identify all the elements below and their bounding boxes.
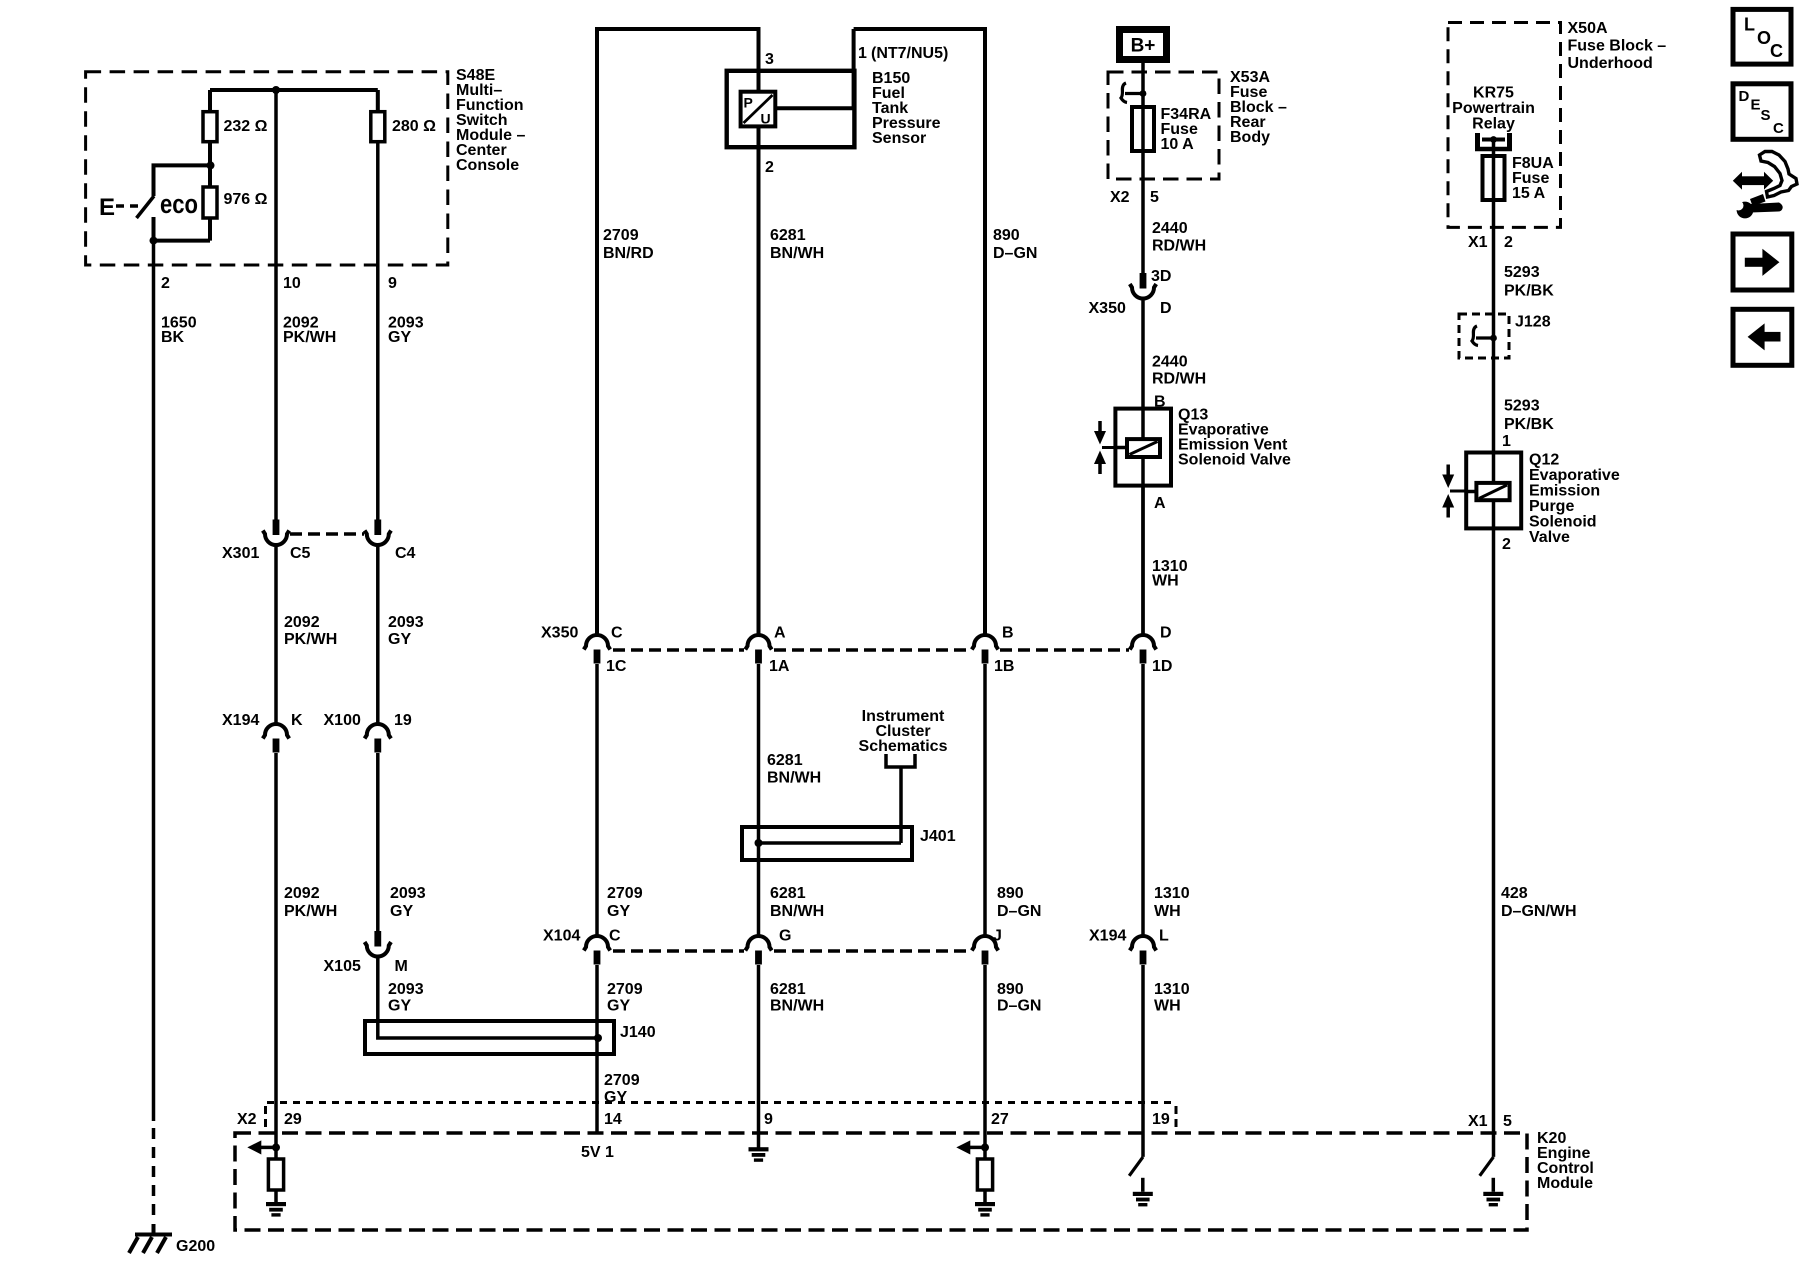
svg-text:5V 1: 5V 1 — [581, 1144, 614, 1161]
label B150 Fuel Tank Pressure Sensor — [872, 70, 941, 147]
svg-text:WH: WH — [1154, 903, 1181, 920]
svg-text:U: U — [761, 111, 771, 127]
ECM internal pin 29 signal arrow — [247, 1140, 280, 1154]
connector X350 pin A (row) — [745, 635, 771, 663]
svg-text:19: 19 — [394, 712, 412, 729]
svg-text:Solenoid: Solenoid — [1529, 514, 1597, 531]
label KR75 Powertrain Relay — [1452, 85, 1535, 133]
sensor P/U transducer symbol — [741, 92, 776, 127]
svg-text:PK/BK: PK/BK — [1504, 416, 1554, 433]
svg-text:X1: X1 — [1468, 234, 1488, 251]
svg-text:J128: J128 — [1515, 314, 1551, 331]
svg-text:1D: 1D — [1152, 658, 1172, 675]
svg-text:X105: X105 — [324, 958, 361, 975]
svg-text:2092: 2092 — [284, 885, 320, 902]
wire 2092 PK/WH lower segment to ECM pin 29 — [274, 753, 278, 1159]
svg-text:29: 29 — [284, 1111, 302, 1128]
wire 2440 from B+ through fuse — [1141, 63, 1145, 274]
svg-text:GY: GY — [388, 631, 411, 648]
svg-text:RD/WH: RD/WH — [1152, 371, 1206, 388]
label wire 1310 WH (upper) — [1152, 558, 1188, 589]
label Q13 Evaporative Emission Vent Solenoid Valve — [1178, 407, 1291, 469]
connector X105 pin M — [365, 931, 391, 957]
svg-text:1310: 1310 — [1154, 885, 1190, 902]
connector X301 pin C5 — [263, 520, 289, 546]
wire resistor to ground pin29 — [274, 1190, 278, 1202]
label Q12 Evaporative Emission Purge Solenoid Valve — [1529, 452, 1620, 547]
svg-text:D: D — [1739, 88, 1750, 105]
svg-text:19: 19 — [1152, 1111, 1170, 1128]
svg-text:Module: Module — [1537, 1175, 1593, 1192]
dashed connector link X301 — [290, 532, 364, 536]
label wire 2709 GY (mid) — [607, 885, 643, 920]
svg-text:E: E — [1751, 96, 1761, 113]
svg-text:D–GN/WH: D–GN/WH — [1501, 903, 1577, 920]
svg-text:232 Ω: 232 Ω — [224, 118, 268, 135]
label S48E Multi-Function Switch Module - Center Console — [456, 67, 525, 174]
splice J140 box — [365, 1021, 614, 1054]
svg-text:Q12: Q12 — [1529, 452, 1559, 469]
wire 2093 GY into splice J140 — [378, 958, 598, 1039]
svg-text:5: 5 — [1503, 1113, 1512, 1130]
svg-text:Console: Console — [456, 157, 519, 174]
svg-text:2: 2 — [161, 275, 170, 292]
ground ECM X1-5 — [1483, 1192, 1503, 1207]
svg-text:D: D — [1160, 300, 1172, 317]
svg-text:GY: GY — [607, 903, 630, 920]
svg-text:D–GN: D–GN — [997, 998, 1041, 1015]
resistor 232 ohm — [203, 112, 217, 142]
label wire 2709 GY (below J140) — [604, 1072, 640, 1106]
svg-text:3: 3 — [765, 51, 774, 68]
connector X350 pin D inline (3D) — [1130, 273, 1156, 299]
connector X194 pin L — [1130, 936, 1156, 965]
label wire 2092 PK/WH (upper) — [283, 315, 336, 347]
splice J401 box — [742, 827, 912, 860]
connector X104 pin G — [745, 936, 771, 965]
wire bottom node to pin 2 — [154, 239, 211, 243]
svg-text:Fuse Block –: Fuse Block – — [1568, 38, 1667, 55]
svg-text:GY: GY — [607, 998, 630, 1015]
svg-text:3D: 3D — [1151, 268, 1171, 285]
solenoid valve Q12 box — [1466, 453, 1521, 529]
icon forward arrow box — [1733, 234, 1792, 290]
dashed connector row X104 — [613, 949, 971, 953]
svg-text:X350: X350 — [1089, 300, 1126, 317]
svg-text:D: D — [1160, 625, 1172, 642]
svg-text:6281: 6281 — [770, 981, 806, 998]
svg-text:BN/WH: BN/WH — [770, 903, 824, 920]
wire 2092 PK/WH mid segment — [274, 546, 278, 726]
connector X301 pin C4 — [365, 520, 391, 546]
ground ECM pin 9 — [749, 1147, 769, 1162]
svg-text:X104: X104 — [543, 928, 580, 945]
label wire 1310 WH (below X194) — [1154, 981, 1190, 1015]
svg-text:PK/WH: PK/WH — [283, 329, 336, 346]
label wire 2709 BN/RD — [603, 227, 654, 262]
terminal clip in J128 — [1472, 326, 1497, 346]
label wire 6281 BN/WH (below J401) — [770, 885, 824, 920]
svg-text:C4: C4 — [395, 545, 416, 562]
dashed actuate link E to blade — [116, 204, 138, 208]
svg-text:X301: X301 — [222, 545, 259, 562]
fuse block X53A box — [1108, 72, 1219, 179]
svg-text:(NT7/NU5): (NT7/NU5) — [871, 45, 948, 62]
wire 976-ohm branch — [208, 165, 212, 240]
svg-text:Sensor: Sensor — [872, 130, 926, 147]
label Instrument Cluster Schematics — [859, 708, 948, 755]
svg-text:Schematics: Schematics — [859, 738, 948, 755]
svg-text:2: 2 — [1502, 536, 1511, 553]
ground ECM pin 27 — [975, 1202, 995, 1217]
label wire 2440 RD/WH (lower) — [1152, 353, 1206, 387]
svg-text:G: G — [779, 928, 791, 945]
wire 280-ohm branch — [376, 90, 380, 112]
svg-text:C: C — [611, 625, 623, 642]
wire 1310 WH Q13 to X350 D — [1141, 486, 1145, 637]
wire switch upper contact branch — [154, 165, 211, 196]
label F8UA Fuse 15 A — [1512, 155, 1554, 202]
svg-text:1B: 1B — [994, 658, 1014, 675]
svg-text:1310: 1310 — [1154, 981, 1190, 998]
svg-text:WH: WH — [1154, 998, 1181, 1015]
svg-text:GY: GY — [388, 998, 411, 1015]
wire 1310 WH to ECM pin 19 — [1141, 965, 1145, 1157]
label wire 428 D-GN/WH — [1501, 885, 1577, 920]
fuse block X50A box — [1448, 23, 1561, 228]
wire splice J401 internal — [759, 841, 902, 845]
wire 232-ohm branch — [208, 90, 212, 165]
switch eco blade (open) — [137, 196, 155, 218]
connector X194 pin K — [263, 724, 289, 753]
ECM internal driver pin 19 — [1129, 1157, 1143, 1192]
svg-text:X50A: X50A — [1568, 20, 1608, 37]
svg-text:Body: Body — [1230, 129, 1270, 146]
svg-text:E: E — [99, 194, 115, 221]
svg-text:Relay: Relay — [1472, 116, 1515, 133]
wire internal top bus S48E — [210, 88, 378, 92]
tick X2 connector right — [1175, 1106, 1178, 1129]
junction dot lower node — [150, 237, 158, 245]
svg-text:D–GN: D–GN — [997, 903, 1041, 920]
svg-text:X194: X194 — [1089, 928, 1126, 945]
svg-text:2093: 2093 — [388, 614, 424, 631]
svg-text:2709: 2709 — [607, 885, 643, 902]
label wire 1650 BK — [161, 315, 197, 347]
svg-text:PK/WH: PK/WH — [284, 903, 337, 920]
svg-text:J: J — [993, 928, 1002, 945]
icon diagnostic double arrow with wrench — [1733, 152, 1797, 366]
wire 2709 top run to sensor pin 3 — [595, 29, 599, 31]
label wire 2093 GY (below X100) — [390, 885, 426, 920]
wire 1650 BK dashed tail — [152, 1128, 156, 1222]
svg-text:2092: 2092 — [284, 614, 320, 631]
svg-text:Underhood: Underhood — [1568, 55, 1653, 72]
svg-text:M: M — [395, 958, 408, 975]
svg-text:PK/BK: PK/BK — [1504, 283, 1554, 300]
label wire 2092 PK/WH (mid) — [284, 614, 337, 648]
svg-text:Purge: Purge — [1529, 498, 1574, 515]
label wire 6281 BN/WH (below X104) — [770, 981, 824, 1015]
label wire 2709 GY (below X104) — [607, 981, 643, 1015]
junction dot J401 splice — [755, 839, 763, 847]
svg-text:K: K — [291, 712, 303, 729]
wire 6281 BN/WH to ECM pin 9 — [757, 965, 761, 1148]
wire 2093 GY below X100 — [376, 753, 380, 932]
ECM internal resistor pin 27 — [977, 1159, 992, 1190]
wire 2709 GY through J140 to ECM pin 14 — [595, 965, 599, 1133]
ground ECM pin 29 — [266, 1202, 286, 1217]
svg-text:RD/WH: RD/WH — [1152, 238, 1206, 255]
svg-text:14: 14 — [604, 1111, 622, 1128]
svg-text:Evaporative: Evaporative — [1529, 467, 1620, 484]
svg-text:J140: J140 — [620, 1024, 656, 1041]
label wire 5293 PK/BK (upper) — [1504, 264, 1554, 300]
svg-text:BK: BK — [161, 329, 185, 346]
connector X104 pin J — [972, 936, 998, 965]
svg-text:X350: X350 — [541, 625, 578, 642]
ECM internal pin 27 signal arrow — [956, 1140, 989, 1154]
svg-text:5293: 5293 — [1504, 264, 1540, 281]
battery feed B+ box — [1120, 30, 1167, 60]
svg-text:Valve: Valve — [1529, 529, 1570, 546]
label wire 5293 PK/BK (lower) — [1504, 397, 1554, 433]
wire 890 D-GN vertical — [983, 27, 987, 637]
svg-text:X2: X2 — [1110, 189, 1130, 206]
svg-text:L: L — [1744, 15, 1755, 35]
tick X2 connector left — [264, 1106, 267, 1129]
label wire 6281 BN/WH (upper) — [770, 227, 824, 262]
svg-text:BN/WH: BN/WH — [770, 998, 824, 1015]
svg-text:Emission: Emission — [1529, 483, 1600, 500]
svg-text:eco: eco — [160, 189, 198, 219]
wire 2092 PK/WH upper segment — [274, 90, 278, 521]
fuse F34RA 10A — [1132, 107, 1154, 151]
svg-text:2709: 2709 — [603, 227, 639, 244]
svg-text:G200: G200 — [176, 1238, 215, 1255]
svg-text:BN/WH: BN/WH — [767, 770, 821, 787]
svg-text:C: C — [609, 928, 621, 945]
icon back arrow box — [1733, 309, 1792, 365]
wire 2709 GY mid segment — [595, 664, 599, 938]
svg-text:5: 5 — [1150, 189, 1159, 206]
label K20 Engine Control Module — [1537, 1130, 1594, 1192]
svg-text:A: A — [774, 625, 786, 642]
Q13 valve symbol — [1094, 421, 1115, 474]
svg-text:15 A: 15 A — [1512, 185, 1546, 202]
wire 2709 BN/RD vertical — [595, 27, 599, 637]
junction dot 232/976 node — [207, 161, 215, 169]
switch lower contact — [152, 217, 156, 241]
Q12 valve symbol — [1442, 465, 1466, 518]
svg-text:2709: 2709 — [607, 981, 643, 998]
label wire 890 D-GN (below X104) — [997, 981, 1041, 1015]
resistor 976 ohm — [203, 187, 217, 218]
svg-text:2: 2 — [765, 159, 774, 176]
svg-text:2709: 2709 — [604, 1072, 640, 1089]
label wire 890 D-GN (upper) — [993, 227, 1037, 262]
label F34RA Fuse 10 A — [1161, 106, 1212, 153]
ECM internal driver X1-5 — [1480, 1157, 1494, 1192]
off-page bracket to instrument cluster — [886, 754, 915, 767]
wire 1650 BK pin2 to G200 — [152, 241, 156, 1121]
svg-text:B+: B+ — [1131, 36, 1156, 57]
svg-text:GY: GY — [388, 329, 411, 346]
svg-text:2440: 2440 — [1152, 220, 1188, 237]
svg-text:890: 890 — [993, 227, 1020, 244]
wire 890 top run — [854, 27, 985, 31]
svg-text:976 Ω: 976 Ω — [224, 191, 268, 208]
label wire 2093 GY (below X105) — [388, 981, 424, 1015]
svg-text:2093: 2093 — [390, 885, 426, 902]
svg-text:P: P — [744, 95, 753, 111]
svg-text:10: 10 — [283, 275, 301, 292]
svg-text:428: 428 — [1501, 885, 1528, 902]
label wire 2093 GY (upper) — [388, 315, 424, 347]
svg-text:KR75: KR75 — [1473, 85, 1514, 102]
svg-text:1A: 1A — [769, 658, 790, 675]
wire 890 D-GN to ECM pin 27 — [983, 965, 987, 1159]
wire 2440 RD/WH to Q13 — [1141, 300, 1145, 638]
label wire 2093 GY (mid) — [388, 614, 424, 648]
connector X104 pin C — [584, 936, 610, 965]
ground G200 symbol — [129, 1224, 172, 1253]
label wire 6281 BN/WH (mid J401 area) — [767, 752, 821, 787]
wire resistor to ground pin27 — [983, 1190, 987, 1202]
svg-text:L: L — [1159, 928, 1169, 945]
Q13 solenoid coil symbol — [1115, 439, 1160, 457]
Q12 solenoid coil symbol — [1466, 483, 1509, 500]
connector face dotted row X2 (ECM) — [267, 1101, 1176, 1104]
splice pack J128 box — [1459, 314, 1509, 358]
resistor 280 ohm — [371, 112, 385, 142]
svg-text:X194: X194 — [222, 712, 259, 729]
svg-text:9: 9 — [764, 1111, 773, 1128]
module S48E Multi-Function Switch Module box — [86, 72, 448, 265]
svg-text:WH: WH — [1152, 572, 1179, 589]
svg-text:C: C — [1770, 41, 1783, 61]
icon LOC box — [1733, 9, 1791, 64]
connector X350 pin B (row) — [972, 635, 998, 664]
wire 1310 WH mid segment — [1141, 664, 1145, 938]
svg-text:A: A — [1154, 495, 1166, 512]
solenoid valve Q13 box — [1115, 409, 1171, 486]
svg-text:C5: C5 — [290, 545, 311, 562]
dashed connector row X350 — [613, 648, 1129, 652]
relay KR75 contact symbol — [1475, 133, 1512, 149]
svg-text:1: 1 — [1502, 433, 1511, 450]
connector X350 pin C (row) — [584, 635, 610, 664]
label X50A Fuse Block - Underhood — [1568, 20, 1667, 72]
svg-text:2093: 2093 — [388, 981, 424, 998]
wire 6281 BN/WH mid segment — [757, 664, 761, 938]
svg-text:280 Ω: 280 Ω — [392, 118, 436, 135]
icon DESC box — [1733, 84, 1791, 140]
connector X350 pin D (row) — [1130, 635, 1156, 664]
svg-text:890: 890 — [997, 981, 1024, 998]
svg-text:S: S — [1761, 107, 1771, 124]
svg-text:BN/RD: BN/RD — [603, 245, 654, 262]
label wire 2092 PK/WH (lower) — [284, 885, 337, 920]
wire 6281 BN/WH sensor pin 3/2 vertical — [757, 27, 761, 92]
svg-text:27: 27 — [991, 1111, 1009, 1128]
svg-text:2440: 2440 — [1152, 353, 1188, 370]
junction dot top bus / 2092 tap — [272, 86, 280, 94]
svg-text:O: O — [1757, 28, 1771, 48]
wire 890 D-GN mid segment — [983, 664, 987, 938]
label wire 890 D-GN (mid) — [997, 885, 1041, 920]
svg-text:10 A: 10 A — [1161, 136, 1195, 153]
svg-text:Solenoid Valve: Solenoid Valve — [1178, 452, 1291, 469]
svg-text:6281: 6281 — [770, 227, 806, 244]
svg-text:GY: GY — [390, 903, 413, 920]
svg-text:D–GN: D–GN — [993, 245, 1037, 262]
svg-text:9: 9 — [388, 275, 397, 292]
svg-text:5293: 5293 — [1504, 397, 1540, 414]
junction dot J140 splice — [594, 1034, 602, 1042]
terminal clip in X53A — [1121, 83, 1146, 103]
label wire 1310 WH (mid) — [1154, 885, 1190, 920]
wire 2093 GY upper segment — [376, 90, 380, 112]
svg-text:6281: 6281 — [767, 752, 803, 769]
svg-text:B: B — [1002, 625, 1014, 642]
svg-text:BN/WH: BN/WH — [770, 245, 824, 262]
wire 2093 GY mid segment — [376, 546, 380, 726]
svg-text:J401: J401 — [920, 828, 956, 845]
svg-text:1C: 1C — [606, 658, 627, 675]
svg-text:2: 2 — [1504, 234, 1513, 251]
svg-text:C: C — [1773, 120, 1784, 137]
ECM internal resistor pin 29 — [268, 1159, 283, 1190]
svg-text:1: 1 — [858, 45, 867, 62]
svg-text:Powertrain: Powertrain — [1452, 100, 1535, 117]
sensor B150 fuel tank pressure sensor box — [727, 71, 855, 147]
fuse F8UA 15A — [1483, 156, 1505, 200]
wire 5293 relay to X1-5 full run — [1492, 140, 1496, 1157]
svg-text:X1: X1 — [1468, 1113, 1488, 1130]
wire sensor pin1 internal — [775, 29, 853, 108]
label wire 2440 RD/WH (upper) — [1152, 220, 1206, 255]
wire stem to splice J401 — [899, 767, 903, 843]
svg-text:X100: X100 — [324, 712, 361, 729]
connector X100 pin 19 — [365, 724, 391, 753]
svg-text:PK/WH: PK/WH — [284, 631, 337, 648]
svg-text:6281: 6281 — [770, 885, 806, 902]
module K20 Engine Control Module box — [235, 1133, 1527, 1230]
svg-text:X2: X2 — [237, 1111, 257, 1128]
label X53A Fuse Block - Rear Body — [1230, 69, 1287, 146]
svg-text:890: 890 — [997, 885, 1024, 902]
ground ECM pin 19 — [1133, 1192, 1153, 1207]
